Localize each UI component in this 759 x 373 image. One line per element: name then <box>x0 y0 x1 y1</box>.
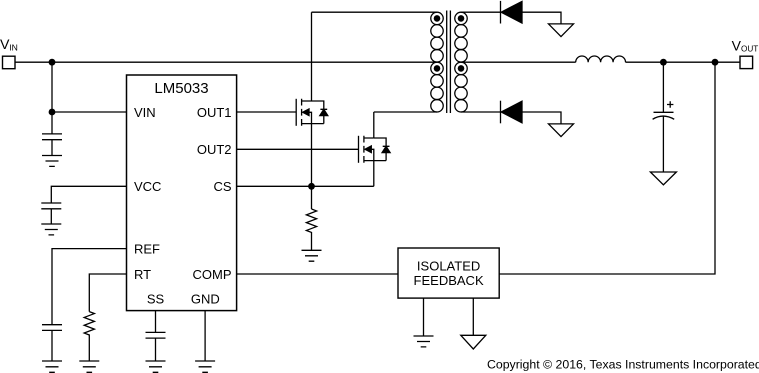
svg-text:ISOLATED: ISOLATED <box>417 258 480 273</box>
svg-text:VIN: VIN <box>134 105 156 120</box>
wire Q1 drain rail to transformer primary top <box>312 11 438 13</box>
ground sense resistor <box>302 250 322 261</box>
node primary lower phase dot <box>434 65 441 72</box>
ground input capacitor <box>42 156 62 167</box>
wire COMP pin to feedback block <box>237 273 398 275</box>
svg-text:CS: CS <box>213 179 231 194</box>
ground D1 (chassis triangle) <box>549 24 574 37</box>
resistor current sense <box>306 209 316 250</box>
ground RT resistor <box>79 361 99 372</box>
svg-text:LM5033: LM5033 <box>154 80 208 97</box>
wire OUT2 pin to Q2 gate <box>237 148 359 150</box>
capacitor input bypass <box>42 134 62 156</box>
inductor transformer primary winding <box>431 12 443 112</box>
wire VCC pin to capacitor <box>51 186 126 203</box>
wire SS pin to capacitor <box>155 311 157 333</box>
node primary top phase dot <box>434 15 441 22</box>
wire secondary bottom to diode D2 <box>461 111 501 113</box>
svg-text:OUT1: OUT1 <box>197 105 232 120</box>
node output capacitor junction <box>660 59 667 66</box>
op-amp U1 LM5033 controller box <box>127 75 237 311</box>
svg-text:VCC: VCC <box>134 179 161 194</box>
ground REF capacitor <box>42 361 62 372</box>
svg-text:OUT2: OUT2 <box>197 142 232 157</box>
capacitor output (polarized) <box>653 101 675 172</box>
wire to VIN pin <box>52 111 127 113</box>
node CS junction <box>308 183 315 190</box>
wire inductor to VOUT terminal <box>626 61 741 63</box>
diode D1 <box>501 1 523 24</box>
ground feedback block (chassis triangle) <box>461 335 486 349</box>
wire transformer primary bottom to Q2 drain <box>374 111 437 113</box>
node feedback junction <box>712 59 719 66</box>
node secondary top phase dot <box>458 15 465 22</box>
node VIN input terminal <box>3 56 16 68</box>
node VIN junction <box>49 59 56 66</box>
wire feedback block chassis stub <box>472 298 474 335</box>
wire VIN junction to input capacitor <box>51 112 53 134</box>
svg-text:REF: REF <box>134 242 160 257</box>
wire REF pin to capacitor <box>52 249 127 325</box>
transformer core <box>447 11 451 114</box>
ground VCC capacitor <box>41 224 61 235</box>
resistor RT <box>84 312 94 361</box>
capacitor REF <box>42 325 62 361</box>
svg-text:COMP: COMP <box>193 267 232 282</box>
node secondary lower phase dot <box>458 65 465 72</box>
node VIN pin junction <box>49 109 56 116</box>
svg-text:IN: IN <box>9 42 18 52</box>
wire feedback block to VOUT node <box>499 62 715 274</box>
value label ISOLATED FEEDBACK <box>414 258 484 288</box>
svg-text:GND: GND <box>191 292 220 307</box>
wire D2 anode to ground <box>522 112 561 124</box>
ground GND pin <box>195 361 215 372</box>
ground feedback block (signal) <box>414 336 434 347</box>
op-amp feedback block <box>398 248 499 298</box>
wire OUT1 pin to Q1 gate <box>237 111 297 113</box>
wire VIN rail to transformer primary center tap <box>15 61 437 63</box>
ground SS capacitor <box>146 361 166 372</box>
svg-text:SS: SS <box>147 292 165 307</box>
wire D1 anode to ground <box>522 12 561 24</box>
wire GND pin <box>204 311 206 361</box>
svg-text:OUT: OUT <box>741 45 758 54</box>
wire secondary top to diode D1 <box>461 11 501 13</box>
inductor transformer secondary winding <box>455 12 467 112</box>
wire secondary center tap to inductor <box>461 61 576 63</box>
transistor Q1 <box>296 12 328 186</box>
wire CS pin <box>237 185 374 187</box>
svg-text:FEEDBACK: FEEDBACK <box>414 273 484 288</box>
transistor Q2 <box>359 112 391 186</box>
wire VIN junction down to VIN pin node <box>51 62 53 112</box>
wire feedback block ground stub <box>423 298 425 336</box>
ground D2 (chassis triangle) <box>549 124 574 137</box>
svg-text:RT: RT <box>134 267 151 282</box>
node VOUT output terminal <box>740 56 753 68</box>
inductor output filter <box>576 56 626 62</box>
ground output capacitor (chassis triangle) <box>650 172 676 185</box>
svg-text:Copyright © 2016, Texas Instru: Copyright © 2016, Texas Instruments Inco… <box>487 357 759 371</box>
wire RT pin to resistor <box>89 274 126 312</box>
capacitor SS <box>146 332 166 361</box>
node label VIN <box>0 37 18 53</box>
node label VOUT <box>732 38 759 54</box>
wire CS junction to sense resistor <box>311 186 313 209</box>
wire junction to output capacitor <box>662 62 664 112</box>
diode D2 <box>501 101 523 124</box>
capacitor VCC bypass <box>41 203 61 224</box>
